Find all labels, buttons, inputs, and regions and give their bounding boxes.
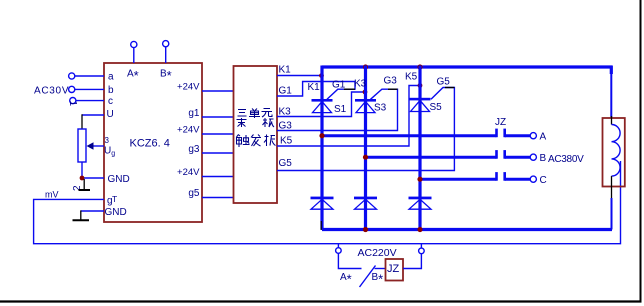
terminal B circle [530,154,536,160]
svg-text:S3: S3 [374,103,387,114]
junction dot K1-V1 [319,73,324,78]
svg-text:+24V: +24V [177,167,200,178]
wire K5 net to S5 cathode [277,86,419,147]
contact JZ-C [497,172,531,181]
svg-text:K5: K5 [280,136,293,147]
wire g5 to trigger board [202,197,234,199]
thyristor S1 [312,99,333,113]
wire GND pin to ground [81,210,104,212]
svg-text:C: C [540,175,547,186]
junction dot K5-V3 [418,83,423,88]
terminal c with circle [70,96,113,107]
ground symbol [73,210,90,220]
chinese text line2 mo ji [237,118,275,127]
wire G5 gate diagonal to S5 [431,88,445,100]
terminal A* top [127,41,139,83]
svg-text:K1: K1 [308,82,321,93]
wire G1 net jog over V1 to S1 gate [277,82,355,97]
svg-text:B: B [540,153,547,164]
junction dot tapB [363,155,368,160]
wire G3 gate diagonal to S3 [371,89,389,99]
wire switch to JZ coil [375,268,386,270]
svg-text:G1: G1 [332,80,346,91]
wire mV feedback loop [34,161,621,244]
phase tap wire B from V2 [366,156,497,159]
svg-text:T: T [112,194,117,204]
potentiometer wiper arrow [87,142,105,150]
wire G1 gate black segment [344,88,355,90]
svg-text:K3: K3 [354,79,367,90]
svg-text:JZ: JZ [387,263,400,275]
wire V1 vertical [320,66,323,230]
wire JZ coil to right terminal [403,254,421,269]
artifact black segment on V1 [320,221,322,230]
junction dot bus-V3 [417,64,422,69]
svg-text:KCZ6. 4: KCZ6. 4 [130,138,170,150]
chinese text line1 san dan yuan [238,109,273,119]
wire potentiometer bottom to GND pin [81,162,83,178]
border frame bottom edge [0,300,642,302]
border frame right edge [640,0,642,303]
thyristor S3 [355,99,376,113]
svg-text:mV: mV [45,190,59,200]
top bus (cathode bus) [322,65,612,68]
wire V3 vertical [418,66,421,230]
svg-text:S1: S1 [334,104,347,115]
wire G3 net to S3 gate [277,89,398,130]
svg-text:AC220V: AC220V [358,247,397,259]
svg-text:c: c [108,96,113,107]
relay coil JZ box [386,259,404,281]
trigger board box (three-unit final stage trigger board) [234,66,278,203]
AC220V terminal right circle [419,244,425,254]
wire +24V to trigger board [202,90,234,92]
AC220V terminal left circle [336,244,342,254]
wire g3 to trigger board [202,152,234,154]
wire left terminal down to switch [338,253,361,268]
terminal a with circle [69,72,114,83]
potentiometer RP body [78,129,86,162]
svg-text:A: A [540,132,547,143]
svg-text:GND: GND [105,207,127,218]
load coil lead bottom (black) [611,176,613,198]
wire K1 net to S1 cathode [277,75,321,77]
op-box U1 KCZ6.4 controller [104,63,202,222]
diode D3 [354,197,377,210]
wire G5 gate black segment [445,87,454,89]
svg-text:AC30V: AC30V [34,86,69,97]
wire top bus down to load coil [610,66,613,75]
diode D1 [311,197,334,210]
svg-text:+24V: +24V [177,82,200,93]
contact JZ-A [497,129,531,138]
svg-text:g5: g5 [188,188,200,199]
phase tap wire C from V3 [420,178,497,181]
wire coil bottom to bottom bus [611,198,613,230]
load coil lead top (black) [611,116,613,125]
svg-text:G5: G5 [279,158,293,169]
load coil box [603,118,625,187]
junction dot pot-GND [80,176,85,181]
switch blade [360,266,376,288]
terminal A circle [530,133,536,139]
junction dot tapC [417,177,422,182]
svg-text:g3: g3 [188,144,200,155]
ground tick at pot bottom [79,179,91,190]
diode D5 [409,197,432,210]
phase tap wire A from V1 [322,134,497,137]
svg-text:3: 3 [105,136,110,145]
svg-text:AC380V: AC380V [548,154,584,165]
svg-text:G3: G3 [384,76,398,87]
svg-text:+24V: +24V [177,125,200,136]
svg-text:b: b [108,85,114,96]
chinese text line3 chu fa ban [237,135,276,148]
wire g1 to trigger board [202,116,234,118]
terminal B* top [160,41,172,83]
junction dot K3-V2 [363,90,368,95]
svg-text:g1: g1 [188,108,200,119]
bottom bus (anode bus) [322,228,612,231]
svg-text:1: 1 [67,101,78,107]
wire G5 net to S5 gate [277,88,454,171]
svg-text:U: U [107,109,114,120]
svg-text:S5: S5 [430,102,443,113]
inductor L coil arcs [612,125,621,177]
wire V2 vertical [364,66,367,230]
wire K3 net to S3 cathode [277,92,364,117]
svg-text:G5: G5 [437,77,451,88]
wire G1 gate diagonal to S1 [327,89,344,99]
wire +24V to trigger board [202,176,234,178]
thyristor S5 [410,98,431,112]
junction dot bottombus-V3 [417,227,422,232]
svg-text:GND: GND [108,174,130,185]
terminal C circle [530,176,536,182]
contact JZ-B [497,150,531,159]
junction dot bottombus-V2 [363,227,368,232]
terminal b with circle [69,85,114,96]
svg-text:JZ: JZ [495,117,506,128]
svg-text:G1: G1 [279,86,293,97]
svg-text:K1: K1 [279,65,292,76]
svg-text:a: a [108,72,114,83]
wire +24V to trigger board [202,133,234,135]
wire U pin to potentiometer top [82,114,104,116]
svg-text:K5: K5 [405,72,418,83]
pin g label [107,194,117,207]
wire G3 gate black segment [388,88,398,90]
junction dot tapA [319,133,324,138]
junction dot bus-V2 [363,64,368,69]
